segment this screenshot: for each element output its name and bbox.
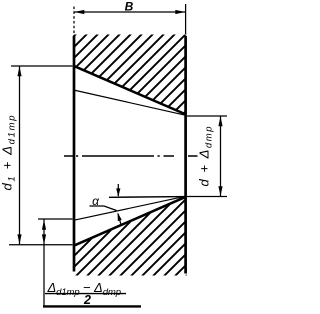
wire formula shelf line [43,305,141,307]
wire upper cone surface (limit, thick) [74,66,186,115]
wire fraction bar [45,293,126,295]
svg-text:B: B [125,0,134,14]
wire alpha angle upper arrow [117,184,119,196]
svg-text:2: 2 [83,293,91,307]
wire B dimension extension line left (dashed) [73,7,75,35]
wire alpha angle lower arrow [118,214,121,225]
svg-text:d + Δdmp: d + Δdmp [197,127,215,187]
wire d1 dimension line [19,66,21,245]
wire small dimension / leader vertical line [43,220,45,307]
wire d1 dimension extension line top [11,65,73,67]
hatched section lower wall [73,197,187,276]
wire d1 dimension extension line bottom [9,244,73,246]
wire B dimension line [74,11,186,13]
wire alpha leader line [90,206,117,211]
wire right bore face edge [184,36,187,274]
svg-text:α: α [92,194,100,208]
svg-text:d1 + Δd1mp: d1 + Δd1mp [0,116,18,191]
wire B dimension extension line right [185,4,187,34]
hatched section upper wall [73,35,187,115]
wire lower cone surface (second limit, thin) [74,196,186,220]
wire alpha horizontal reference line [109,196,186,199]
wire lower cone surface (limit, thick) [74,197,186,246]
wire left bore face edge [73,36,76,272]
wire d dimension extension line bottom [187,196,227,198]
wire upper cone surface (second limit, thin) [74,90,186,115]
wire d dimension extension line top [187,115,227,117]
wire small dimension extension line (thin-limit level) [38,218,73,220]
node axis centerline [64,155,198,157]
wire d dimension line [220,116,222,197]
